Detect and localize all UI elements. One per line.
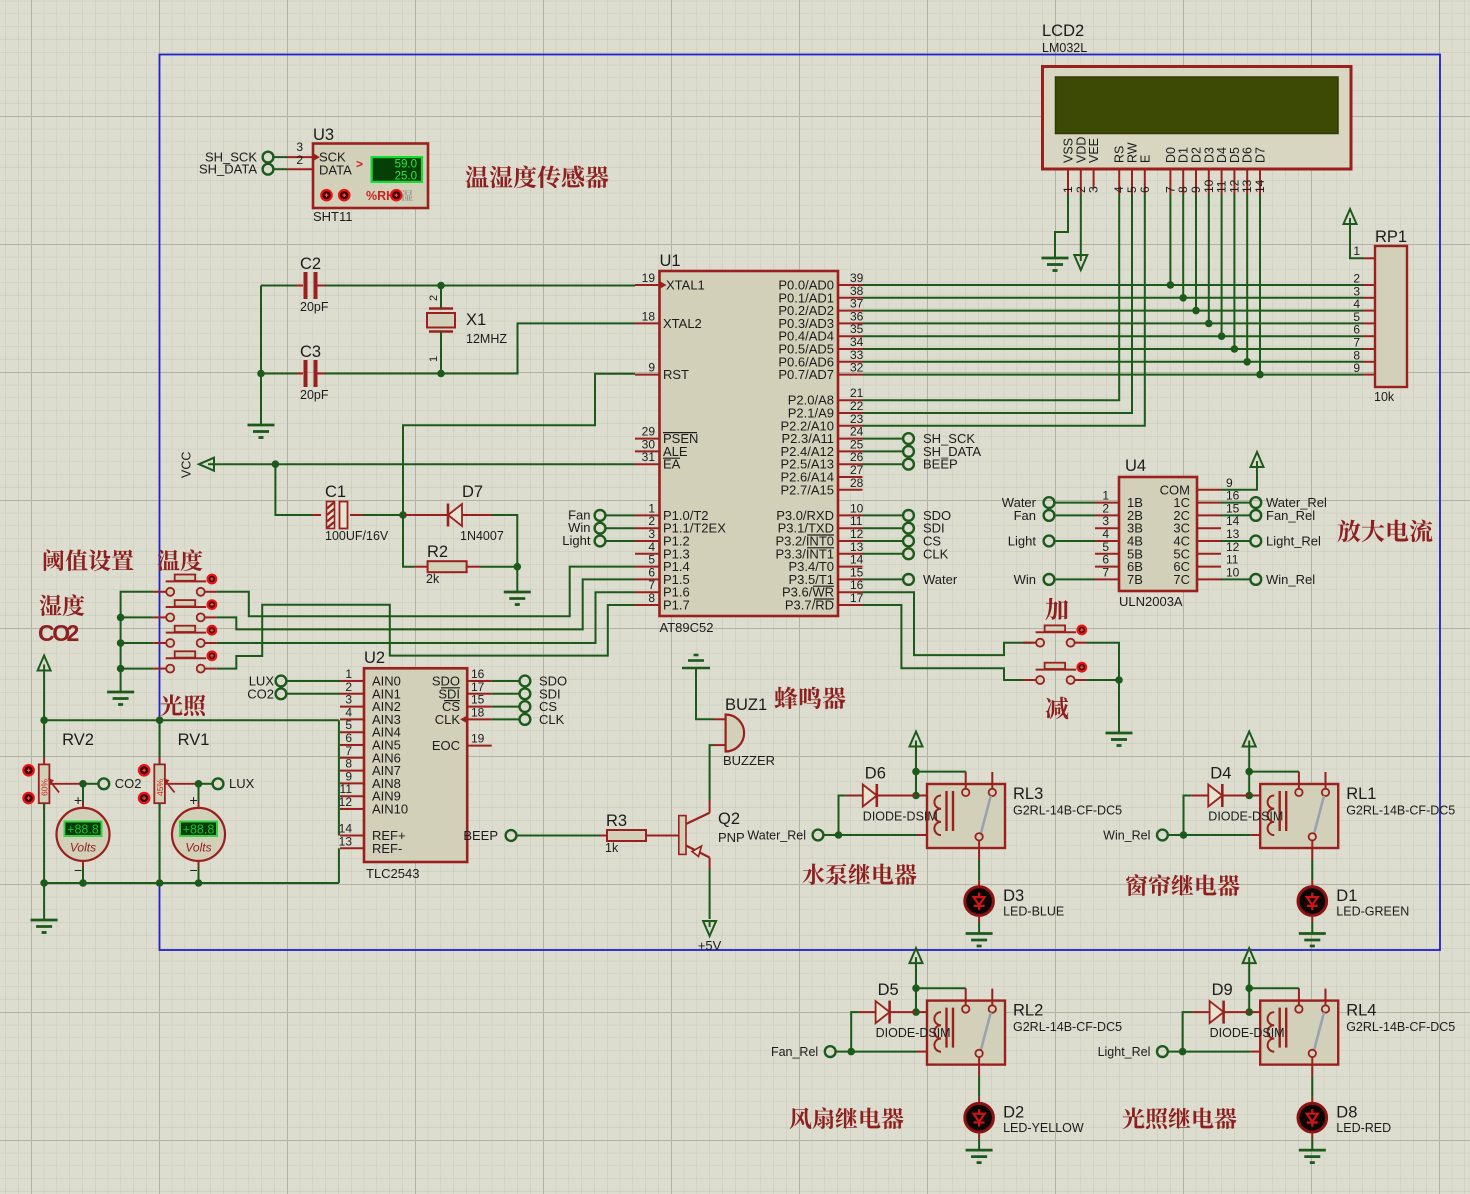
svg-text:3: 3 (1087, 186, 1101, 193)
U1 pin 2 P1.1/T2EX (635, 527, 660, 529)
terminal Win (595, 523, 606, 534)
terminal Light_Rel at U4 (1221, 540, 1250, 542)
svg-text:Win: Win (1014, 572, 1036, 587)
U1 pin 3 P1.2 (635, 540, 660, 542)
RP1 pin 1 (1363, 257, 1375, 259)
RP1 pin 9 (1363, 374, 1375, 376)
resistor R3 1k (600, 835, 607, 837)
sensor U3 SHT11 body (313, 144, 428, 209)
wire P0.5 to RP1 pin 7 (863, 348, 1364, 350)
wire D3 to ground (978, 922, 980, 934)
svg-text:RV2: RV2 (62, 731, 94, 749)
svg-text:D6: D6 (865, 765, 886, 783)
wire LUX to AIN0 (287, 680, 341, 682)
label 光照 (161, 694, 183, 716)
svg-text:18: 18 (642, 309, 656, 323)
U1 pin 35 P0.4/AD4 (838, 335, 863, 337)
svg-text:DIODE-DSIM: DIODE-DSIM (1208, 810, 1283, 824)
terminal Water_Rel at U4 (1221, 502, 1250, 504)
svg-text:31: 31 (642, 450, 656, 464)
svg-text:PNP: PNP (718, 830, 745, 845)
ground under D8 (1299, 1149, 1326, 1152)
svg-text:REF-: REF- (372, 841, 402, 856)
svg-text:Win_Rel: Win_Rel (1103, 829, 1150, 843)
wire C1 to node (363, 514, 403, 516)
wire P0.6 to RP1 pin 8 (863, 361, 1364, 363)
U2 pin 18 CLK (467, 718, 492, 720)
svg-text:U2: U2 (364, 649, 385, 667)
svg-text:RL1: RL1 (1346, 785, 1376, 803)
svg-text:D2: D2 (1003, 1104, 1024, 1122)
U1 pin 25 P2.4/A12 (838, 450, 863, 452)
wire RV2 rail to ground (43, 883, 45, 920)
svg-text:2: 2 (296, 153, 303, 167)
wire Light (606, 540, 636, 542)
node D0 bus junction (1167, 281, 1175, 289)
svg-text:+88.8: +88.8 (183, 822, 215, 836)
power +5V arrow (703, 921, 716, 936)
wire to RL2 contact (916, 987, 966, 989)
svg-text:EOC: EOC (432, 738, 460, 753)
LCD pin 13 D6 (1246, 169, 1248, 194)
terminal Win at U4 (1044, 574, 1055, 585)
U2 pin 17 SDI (467, 693, 492, 695)
wire buzzer top to ground (696, 668, 714, 719)
LCD pin 12 D5 (1233, 169, 1235, 194)
svg-text:DIODE-DSIM: DIODE-DSIM (863, 810, 938, 824)
driver U4 ULN2003A body (1119, 477, 1197, 591)
svg-text:14: 14 (1253, 179, 1267, 193)
terminal Water (863, 578, 904, 580)
ground LCD VSS (1042, 257, 1069, 260)
U2 pin 13 REF- (340, 847, 364, 849)
U1 pin 18 XTAL2 (635, 322, 660, 324)
terminal SH_DATA (863, 450, 904, 452)
svg-text:Water: Water (923, 572, 958, 587)
wire Water to U4 (1055, 502, 1096, 504)
U2 pin 11 AIN9 (340, 795, 364, 797)
svg-text:CO2: CO2 (115, 776, 142, 791)
node C3 rail junction (257, 370, 265, 378)
LCD pin 9 D2 (1195, 169, 1197, 194)
U1 pin 28 P2.7/A15 (838, 489, 863, 491)
svg-text:7C: 7C (1173, 572, 1190, 587)
U1 pin 14 P3.4/T0 (838, 566, 863, 568)
U4 pin 9 COM (1197, 489, 1221, 491)
node RL2 diode junction (912, 1008, 920, 1016)
svg-text:C3: C3 (300, 343, 321, 361)
label 风扇继电器 (790, 1108, 812, 1130)
wire LCD VDD (1080, 194, 1082, 257)
wire C3 left to rail (261, 373, 296, 375)
svg-text:10: 10 (1226, 565, 1240, 579)
svg-text:D3: D3 (1003, 887, 1024, 905)
push button minus (1023, 679, 1036, 681)
U1 pin 32 P0.7/AD7 (838, 374, 863, 376)
U1 pin 17 P3.7/RD (838, 604, 863, 606)
U1 pin 15 P3.5/T1 (838, 578, 863, 580)
label 湿度 (40, 595, 62, 616)
wire P3.6 to button add (863, 592, 1033, 655)
RP1 pin 6 (1363, 335, 1375, 337)
node C1 D7 R2 junction (399, 511, 407, 519)
svg-text:13: 13 (339, 834, 353, 848)
LCD pin 7 D0 (1169, 169, 1171, 194)
wire Water_Rel to coil (824, 834, 839, 836)
U1 pin 37 P0.2/AD2 (838, 310, 863, 312)
wire Fan to U4 (1055, 514, 1096, 516)
LCD pin 5 RW (1131, 169, 1133, 194)
terminal SH_SCK (263, 152, 274, 163)
svg-text:EA: EA (663, 457, 681, 472)
U1 pin 30 ALE (635, 450, 660, 452)
svg-text:X1: X1 (466, 311, 486, 329)
wire D1 to ground (1311, 922, 1313, 934)
RP1 pin 3 (1363, 297, 1375, 299)
wire Light to U4 (1055, 540, 1096, 542)
svg-text:VCC: VCC (180, 452, 194, 478)
svg-text:>: > (356, 157, 363, 171)
svg-text:Fan: Fan (1014, 508, 1036, 523)
wire Light_Rel to coil (1168, 1051, 1183, 1053)
U2 pin 2 AIN1 (340, 693, 364, 695)
wire RL2 common to LED (978, 1076, 980, 1097)
led D1 LED-GREEN (1311, 880, 1313, 887)
svg-text:G2RL-14B-CF-DC5: G2RL-14B-CF-DC5 (1346, 1020, 1455, 1034)
terminal CLK (863, 553, 904, 555)
svg-text:Volts: Volts (70, 841, 96, 855)
terminal SH_SCK (863, 438, 904, 440)
svg-text:G2RL-14B-CF-DC5: G2RL-14B-CF-DC5 (1013, 1020, 1122, 1034)
svg-text:Water_Rel: Water_Rel (747, 829, 806, 843)
U1 pin 10 P3.0/RXD (838, 514, 863, 516)
svg-text:+: + (190, 792, 198, 808)
RP1 pin 8 (1363, 361, 1375, 363)
wire power to RL4 coil (1248, 963, 1250, 1012)
ground add minus (1106, 732, 1133, 735)
wire LCD D3 column (1208, 194, 1210, 323)
node D4 bus junction (1218, 332, 1226, 340)
U4 pin 5 5B (1095, 553, 1119, 555)
U1 pin 6 P1.5 (635, 578, 660, 580)
push button SW4 (153, 668, 166, 670)
U1 pin 31 EA (635, 463, 660, 465)
svg-text:BEEP: BEEP (463, 828, 498, 843)
terminal BEEP at U2 (506, 830, 517, 841)
U1 pin 13 P3.3/INT1 (838, 553, 863, 555)
U1 pin 19 XTAL1 (635, 284, 660, 286)
svg-text:2k: 2k (426, 572, 440, 586)
svg-text:LCD2: LCD2 (1042, 22, 1084, 40)
relay RL4 G2RL-14B-CF-DC5 body (1260, 1001, 1338, 1065)
wire RV2 bottom (43, 803, 45, 883)
U2 pin 15 CS (467, 706, 492, 708)
svg-text:RL2: RL2 (1013, 1002, 1043, 1020)
wire P0.1 to RP1 pin 3 (863, 297, 1364, 299)
wire C2 right to XTAL1 node (325, 285, 441, 287)
U4 pin 10 7C (1197, 578, 1221, 580)
wire to RL1 contact (1249, 771, 1299, 773)
adc U2 TLC2543 body (364, 668, 467, 862)
terminal SDI at U2 (492, 693, 520, 695)
potentiometer RV1 (159, 720, 161, 757)
svg-text:+88.8: +88.8 (67, 822, 99, 836)
U4 pin 13 4C (1197, 540, 1221, 542)
svg-text:59.0: 59.0 (395, 158, 417, 170)
U1 pin 23 P2.2/A10 (838, 425, 863, 427)
node D5 bus junction (1231, 345, 1239, 353)
U4 pin 7 7B (1095, 578, 1119, 580)
wire BEEP to R3 (517, 835, 601, 837)
wire button left (121, 642, 154, 644)
U1 pin 29 PSEN (635, 438, 660, 440)
diode D7 1N4007 (403, 514, 448, 516)
wire SH_SCK to U3 (274, 156, 288, 158)
svg-text:Light: Light (1008, 534, 1037, 549)
U4 pin 1 1B (1095, 502, 1119, 504)
wire LCD D6 column (1246, 194, 1248, 362)
wire P2.2 to LCD E (863, 194, 1145, 426)
label 减 (1046, 697, 1069, 720)
svg-text:Light_Rel: Light_Rel (1098, 1045, 1151, 1059)
wire C3 right to X1 node (325, 373, 441, 375)
svg-text:R3: R3 (606, 812, 627, 830)
svg-text:TLC2543: TLC2543 (366, 866, 419, 881)
resistor pack RP1 body (1375, 246, 1407, 387)
wire LCD D7 column (1259, 194, 1261, 375)
wire D8 to ground (1311, 1139, 1313, 1151)
ground under D3 (966, 932, 993, 935)
U4 pin 16 1C (1197, 502, 1221, 504)
capacitor C2 (295, 285, 303, 287)
node RL2 power junction (912, 984, 920, 992)
U1 pin 39 P0.0/AD0 (838, 284, 863, 286)
LCD pin 1 VSS (1067, 169, 1069, 194)
svg-text:60%: 60% (39, 779, 49, 796)
svg-text:100UF/16V: 100UF/16V (325, 529, 389, 543)
svg-text:20pF: 20pF (300, 388, 329, 402)
svg-text:Fan_Rel: Fan_Rel (1266, 508, 1315, 523)
svg-text:+: + (74, 792, 82, 808)
terminal CO2 (83, 783, 99, 785)
terminal SDI (863, 527, 904, 529)
wire RL4 common to LED (1311, 1076, 1313, 1097)
U1 pin 36 P0.3/AD3 (838, 322, 863, 324)
U2 pin 3 AIN2 (340, 706, 364, 708)
svg-text:E: E (1138, 155, 1152, 163)
svg-text:DIODE-DSIM: DIODE-DSIM (876, 1026, 951, 1040)
LCD pin 14 D7 (1259, 169, 1261, 194)
svg-text:ULN2003A: ULN2003A (1119, 594, 1183, 609)
U2 pin 19 EOC (467, 745, 492, 747)
ground under R2 (516, 567, 518, 592)
node RV1 meter bottom (195, 879, 203, 887)
U1 pin 34 P0.5/AD5 (838, 348, 863, 350)
U4 pin 3 3B (1095, 527, 1119, 529)
svg-text:RST: RST (663, 367, 689, 382)
wire VCC to EA (212, 463, 635, 465)
power arrow U4 (1251, 452, 1264, 467)
svg-text:28: 28 (850, 476, 864, 490)
U4 pin 6 6B (1095, 566, 1119, 568)
power arrow VCC rail (38, 656, 51, 671)
svg-text:18: 18 (471, 705, 485, 719)
svg-text:8: 8 (648, 591, 655, 605)
wire pot top rail (44, 719, 339, 721)
U2 pin 16 SDO (467, 680, 492, 682)
svg-text:Win_Rel: Win_Rel (1266, 572, 1315, 587)
label 加 (1045, 598, 1068, 620)
wire X1 pin2 (440, 286, 442, 309)
svg-text:P3.7/RD: P3.7/RD (785, 598, 834, 613)
U1 pin 8 P1.7 (635, 604, 660, 606)
ground under D2 (966, 1149, 993, 1152)
display LCD2 LM032L body (1043, 67, 1352, 170)
U1 pin 4 P1.3 (635, 553, 660, 555)
svg-text:9: 9 (1353, 361, 1360, 375)
wire D9 anode branch (1183, 1012, 1193, 1052)
svg-text:32: 32 (850, 361, 864, 375)
U4 pin 15 2C (1197, 514, 1221, 516)
potentiometer RV2 (43, 720, 45, 757)
ground above buzzer (694, 654, 699, 657)
U2 pin 4 AIN3 (340, 718, 364, 720)
svg-text:25.0: 25.0 (395, 170, 417, 182)
svg-text:DATA: DATA (319, 163, 352, 178)
svg-text:45%: 45% (155, 779, 165, 796)
U1 pin 38 P0.1/AD1 (838, 297, 863, 299)
wire Fan (606, 514, 636, 516)
wire power to RL2 coil (915, 963, 917, 1012)
RP1 pin 4 (1363, 310, 1375, 312)
U1 pin 33 P0.6/AD6 (838, 361, 863, 363)
led D2 LED-YELLOW (978, 1097, 980, 1104)
LCD pin 6 E (1144, 169, 1146, 194)
svg-text:−: − (74, 862, 82, 878)
wire RV1 bottom (159, 803, 161, 883)
terminal CO2 at U2 (276, 688, 287, 699)
terminal Fan_Rel (825, 1046, 836, 1057)
label 阈值设置 (44, 549, 64, 571)
node VCC C1 junction (272, 460, 280, 468)
node X1 C3 junction (437, 370, 445, 378)
node RL1 diode junction (1245, 792, 1253, 800)
terminal Fan_Rel at U4 (1221, 514, 1250, 516)
node RL1 power junction (1245, 768, 1253, 776)
terminal Fan (595, 510, 606, 521)
node RV1 top (156, 716, 164, 724)
terminal SDO at U2 (492, 680, 520, 682)
svg-text:CLK: CLK (539, 712, 565, 727)
microcontroller U1 AT89C52 body (660, 271, 839, 616)
svg-text:D9: D9 (1212, 981, 1233, 999)
terminal VCC arrow (199, 458, 214, 471)
svg-text:RP1: RP1 (1375, 228, 1407, 246)
U4 pin 4 4B (1095, 540, 1119, 542)
wire RL3 common to LED (978, 860, 980, 881)
LCD pin 2 VDD (1080, 169, 1082, 194)
relay RL3 G2RL-14B-CF-DC5 body (927, 784, 1005, 848)
svg-text:VEE: VEE (1087, 138, 1101, 163)
svg-text:BUZ1: BUZ1 (725, 696, 767, 714)
diode D9 DIODE-DSIM (1193, 1011, 1210, 1013)
wire D2 to ground (978, 1139, 980, 1151)
diode D4 DIODE-DSIM (1191, 795, 1208, 797)
LCD pin 8 D1 (1182, 169, 1184, 194)
wire Fan_Rel to coil (836, 1051, 852, 1053)
voltmeter for RV1 (198, 784, 200, 802)
svg-text:LED-YELLOW: LED-YELLOW (1003, 1121, 1084, 1135)
LCD pin 3 VEE (1093, 169, 1095, 188)
wire LCD D2 column (1195, 194, 1197, 311)
capacitor C1 100UF/16V (312, 514, 321, 516)
power arrow RL1 (1243, 732, 1256, 747)
power arrow RL4 (1243, 948, 1256, 963)
svg-text:LED-GREEN: LED-GREEN (1336, 905, 1409, 919)
wire Q2 emitter to +5V (709, 869, 711, 919)
label 蜂鸣器 (775, 687, 798, 710)
U1 pin 7 P1.6 (635, 591, 660, 593)
wire LCD D0 column (1169, 194, 1171, 285)
node D3 bus junction (1205, 320, 1213, 328)
svg-text:Light_Rel: Light_Rel (1266, 534, 1321, 549)
svg-text:BUZZER: BUZZER (723, 753, 775, 768)
U3 pin 3 SCK stub (287, 156, 313, 158)
RP1 pin 7 (1363, 348, 1375, 350)
transistor Q2 PNP (679, 816, 686, 855)
svg-text:LED-RED: LED-RED (1336, 1121, 1391, 1135)
svg-text:CLK: CLK (923, 546, 949, 561)
svg-text:CO2: CO2 (247, 686, 274, 701)
terminal Water_Rel (813, 830, 824, 841)
label 温湿度传感器 (466, 166, 489, 188)
U3 interactive icons (321, 190, 331, 200)
wire buzzer bottom to Q2 collector (710, 745, 714, 800)
label 水泵继电器 (802, 863, 824, 885)
terminal CLK at U2 (492, 718, 520, 720)
wire P2.1 to LCD RW (863, 194, 1133, 413)
U2 pin 9 AIN8 (340, 782, 364, 784)
wire RL1 common to LED (1311, 860, 1313, 881)
terminal Win_Rel (1157, 830, 1168, 841)
led D8 LED-RED (1311, 1097, 1313, 1104)
svg-text:1k: 1k (605, 841, 619, 855)
node D1 bus junction (1179, 294, 1187, 302)
node RV2 top (40, 716, 48, 724)
wire button1 to P1.4 (217, 567, 635, 617)
terminal CS (863, 540, 904, 542)
node D6 bus junction (1243, 358, 1251, 366)
terminal BEEP (863, 463, 904, 465)
wire button2 to P1.5 (217, 579, 635, 629)
U3 display screen (372, 157, 422, 182)
diode D5 DIODE-DSIM (859, 1011, 876, 1013)
buzzer BUZ1 (726, 715, 745, 752)
U1 pin 16 P3.6/WR (838, 591, 863, 593)
wire button left (121, 668, 154, 670)
terminal SH_DATA (263, 164, 274, 175)
terminal LUX at U2 (276, 676, 287, 687)
node button rail junction (117, 614, 125, 622)
U2 pin 1 AIN0 (340, 680, 364, 682)
node minus junction (1115, 676, 1123, 684)
terminal LUX (199, 783, 214, 785)
RP1 pin 5 (1363, 322, 1375, 324)
power down arrow VDD (1074, 255, 1087, 270)
wire P0.0 to RP1 pin 2 (863, 284, 1364, 286)
ground RV rail (31, 919, 58, 922)
wire REF- to ground rail (338, 848, 340, 883)
